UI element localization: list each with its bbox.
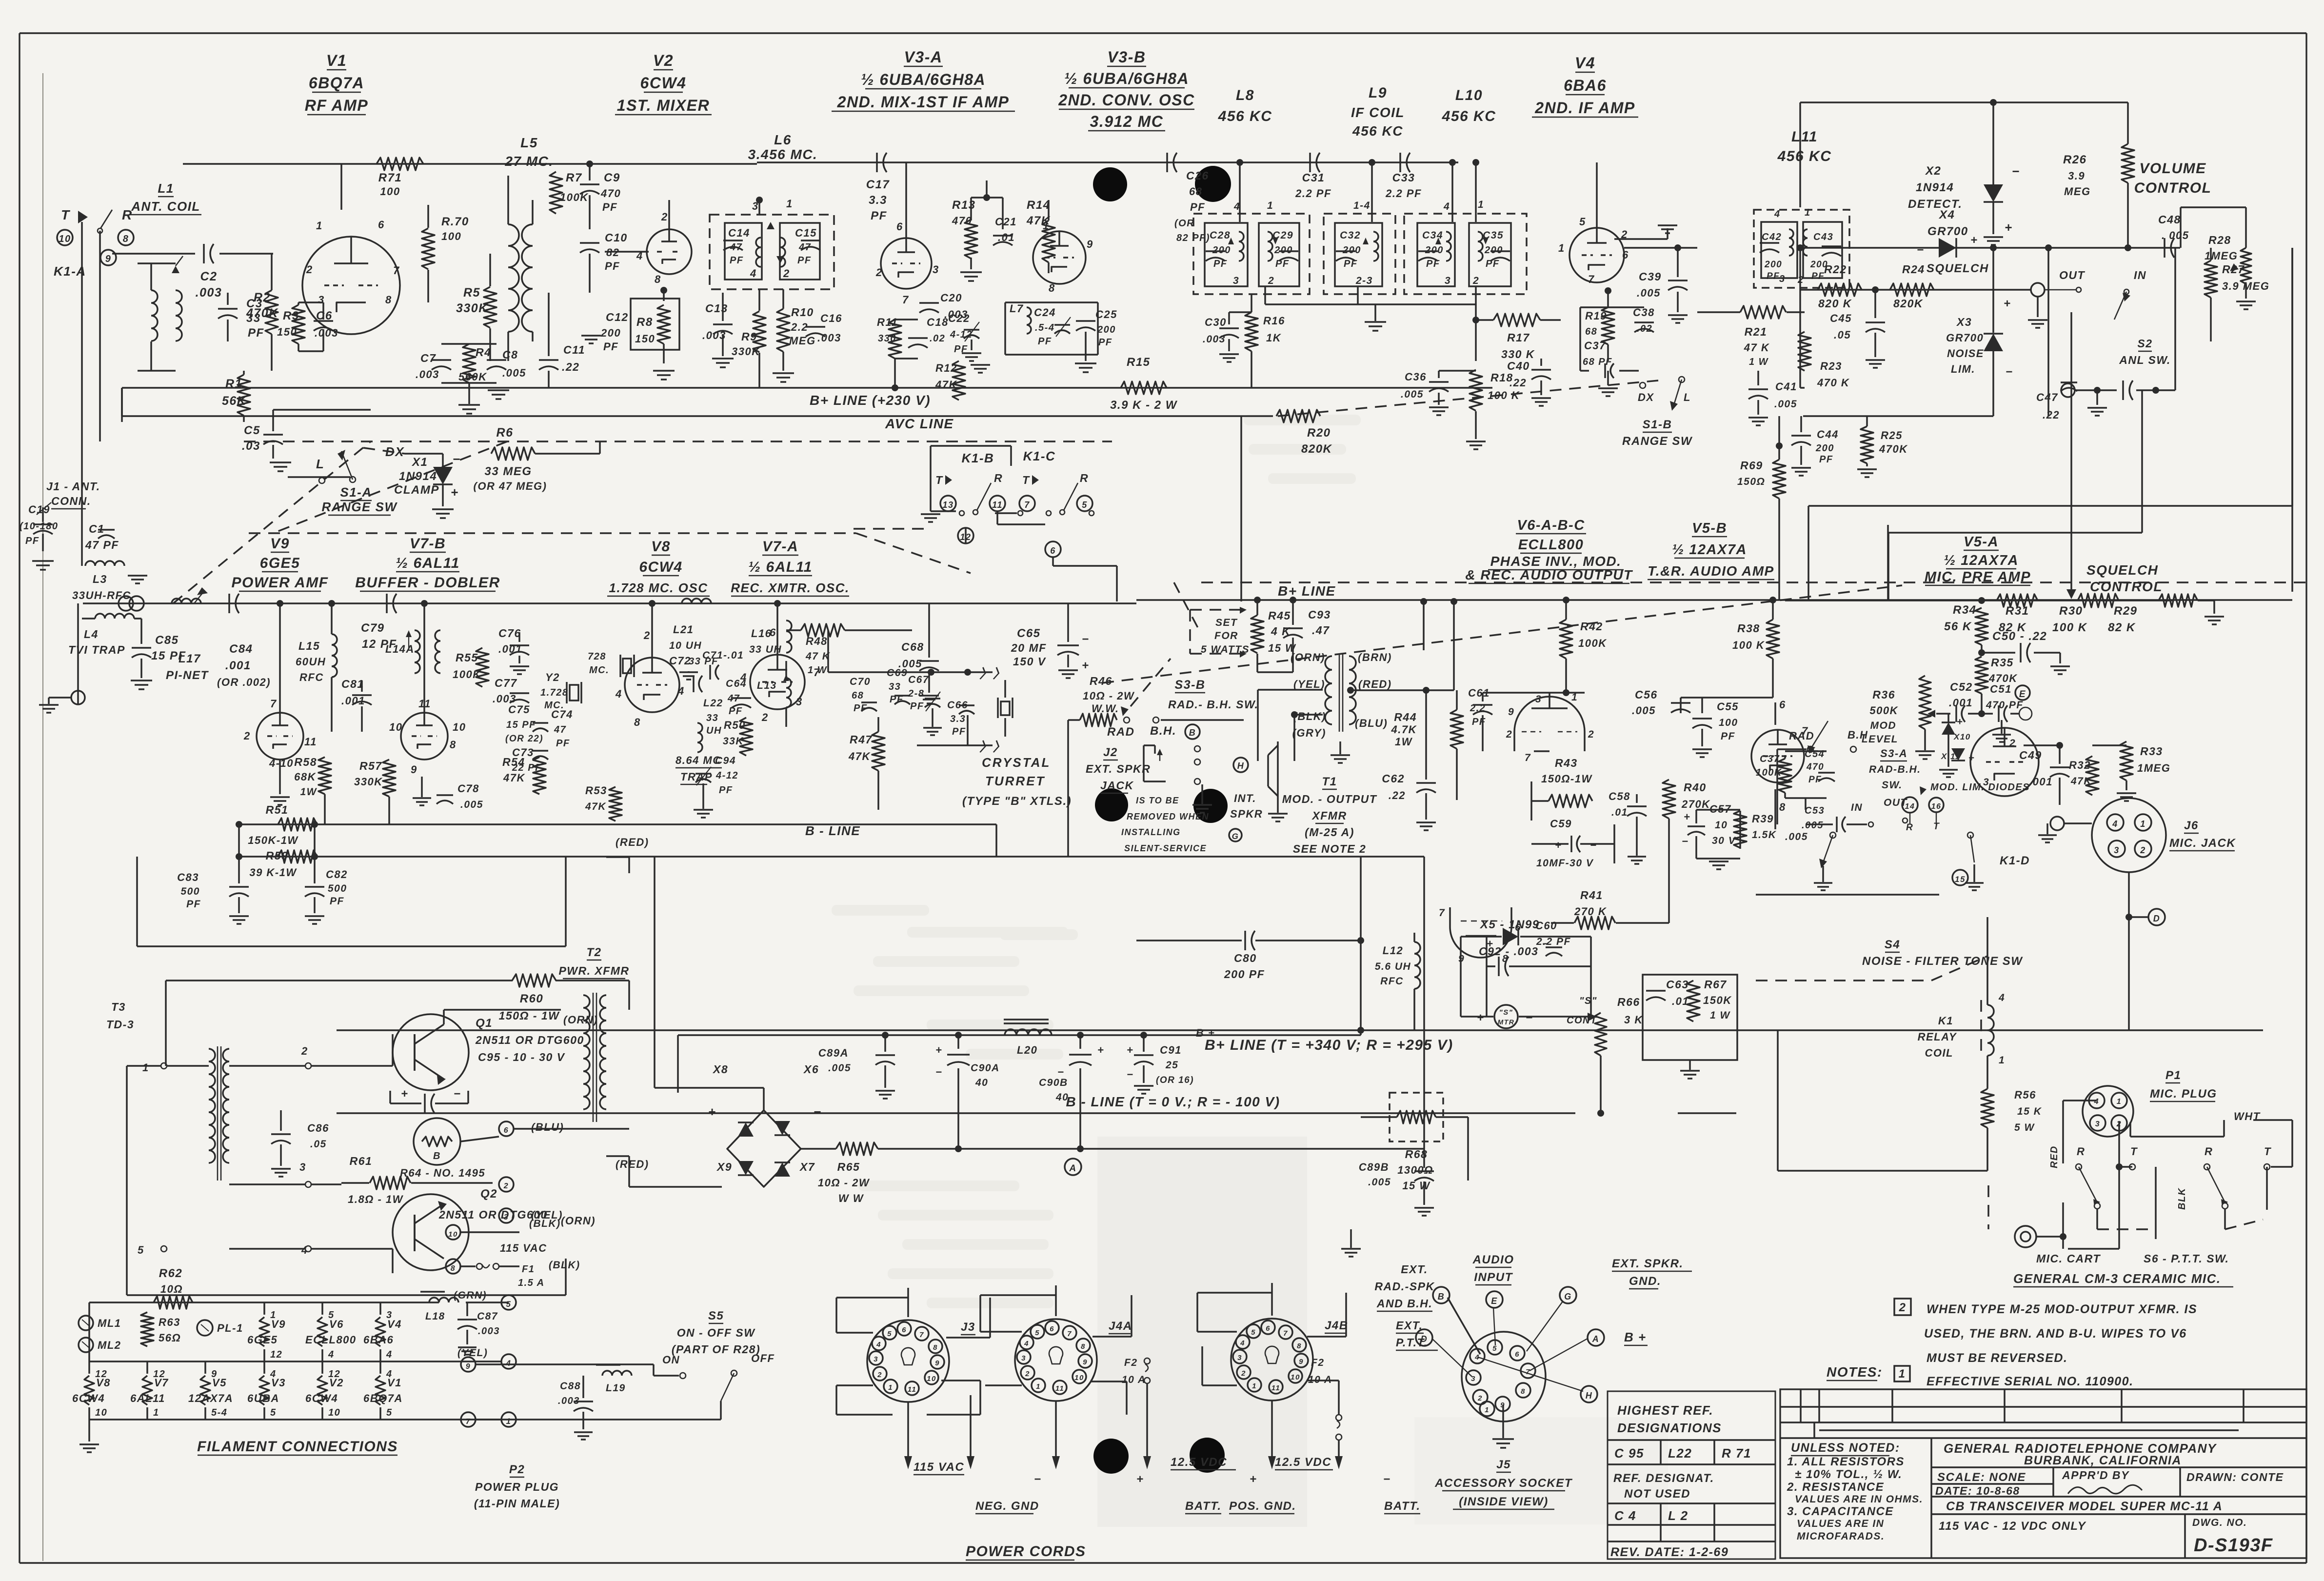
svg-text:4: 4	[750, 267, 757, 280]
svg-text:(M-25 A): (M-25 A)	[1305, 826, 1354, 839]
svg-text:C88: C88	[560, 1381, 581, 1392]
svg-text:R47: R47	[850, 733, 873, 746]
svg-text:150: 150	[635, 333, 655, 345]
svg-text:C70: C70	[850, 676, 871, 687]
svg-text:2: 2	[503, 1182, 509, 1190]
svg-text:C93: C93	[1308, 608, 1331, 621]
svg-text:S5: S5	[708, 1309, 724, 1322]
svg-text:J4A: J4A	[1109, 1320, 1132, 1333]
svg-text:R55: R55	[456, 651, 478, 664]
svg-text:C49: C49	[2019, 749, 2042, 761]
svg-text:7: 7	[1525, 752, 1531, 763]
svg-text:20 MF: 20 MF	[1011, 641, 1047, 654]
svg-text:15 K: 15 K	[2017, 1106, 2042, 1117]
svg-text:10: 10	[1291, 1373, 1300, 1381]
svg-text:+: +	[1082, 659, 1090, 672]
svg-text:R41: R41	[1580, 889, 1603, 901]
svg-text:C86: C86	[307, 1122, 329, 1134]
svg-text:R27: R27	[2222, 263, 2245, 276]
svg-text:−: −	[1057, 1066, 1064, 1078]
svg-text:DESIGNATIONS: DESIGNATIONS	[1617, 1421, 1722, 1435]
svg-text:.003: .003	[1203, 334, 1226, 345]
svg-text:2: 2	[783, 267, 790, 280]
svg-text:W.W.: W.W.	[1092, 702, 1119, 715]
svg-text:R22: R22	[1824, 263, 1847, 276]
svg-text:6: 6	[1622, 249, 1629, 261]
svg-text:L6: L6	[774, 132, 792, 147]
svg-text:A: A	[1592, 1334, 1600, 1344]
svg-text:PF: PF	[1472, 717, 1486, 727]
svg-text:2. RESISTANCE: 2. RESISTANCE	[1787, 1481, 1884, 1494]
svg-text:(BLK): (BLK)	[1293, 710, 1326, 722]
svg-text:5: 5	[1082, 500, 1088, 510]
svg-text:V3: V3	[271, 1377, 286, 1389]
svg-text:C26: C26	[1186, 169, 1209, 182]
svg-text:BATT.: BATT.	[1185, 1500, 1222, 1513]
svg-text:(BLK): (BLK)	[549, 1260, 580, 1271]
svg-text:C7: C7	[420, 352, 436, 364]
svg-text:T: T	[935, 474, 943, 486]
svg-text:+: +	[2005, 220, 2013, 235]
svg-text:2: 2	[301, 1045, 308, 1057]
svg-text:.005: .005	[460, 799, 483, 810]
svg-text:½ 6AL11: ½ 6AL11	[396, 555, 460, 571]
svg-text:C39: C39	[1639, 270, 1662, 283]
svg-text:C1: C1	[89, 522, 104, 535]
svg-text:PF: PF	[248, 326, 264, 340]
svg-text:10: 10	[389, 721, 402, 733]
svg-text:3.3: 3.3	[950, 714, 966, 724]
svg-text:6: 6	[1779, 699, 1786, 711]
svg-text:1: 1	[316, 220, 323, 232]
svg-text:V3-A: V3-A	[904, 48, 943, 66]
svg-text:200 PF: 200 PF	[1224, 968, 1265, 981]
svg-text:33K: 33K	[723, 736, 744, 747]
svg-text:4: 4	[1240, 1339, 1245, 1347]
svg-text:R43: R43	[1555, 757, 1578, 769]
svg-text:1300Ω: 1300Ω	[1397, 1164, 1433, 1176]
svg-text:100K: 100K	[1756, 767, 1782, 778]
svg-text:C15: C15	[795, 227, 817, 239]
svg-text:NEG. GND: NEG. GND	[975, 1500, 1039, 1513]
svg-text:47K: 47K	[585, 801, 606, 812]
svg-text:3: 3	[1237, 1354, 1242, 1362]
svg-text:56 K: 56 K	[1944, 620, 1972, 633]
svg-text:B +: B +	[1196, 1027, 1215, 1039]
svg-text:6: 6	[896, 220, 903, 233]
svg-text:7: 7	[919, 1331, 924, 1339]
svg-text:.05: .05	[310, 1139, 327, 1150]
svg-text:2: 2	[661, 211, 668, 223]
svg-text:+: +	[2004, 297, 2011, 310]
svg-text:R10: R10	[791, 306, 814, 319]
svg-text:4: 4	[2112, 819, 2118, 829]
svg-text:30 V: 30 V	[1712, 835, 1736, 846]
svg-text:+: +	[1127, 1044, 1133, 1056]
svg-text:MOD. LIM. DIODES: MOD. LIM. DIODES	[1930, 782, 2030, 793]
svg-text:C90A: C90A	[971, 1062, 1000, 1074]
svg-text:3.9 K - 2 W: 3.9 K - 2 W	[1110, 399, 1178, 412]
svg-text:PF: PF	[797, 255, 812, 266]
svg-text:SET: SET	[1215, 617, 1238, 628]
svg-text:(YEL): (YEL)	[1293, 678, 1325, 690]
svg-text:AVC LINE: AVC LINE	[885, 416, 954, 431]
svg-text:10: 10	[1715, 820, 1728, 831]
svg-text:R42: R42	[1580, 620, 1603, 633]
svg-text:C58: C58	[1609, 790, 1630, 802]
svg-text:C64: C64	[726, 678, 747, 689]
svg-text:.003: .003	[196, 286, 222, 300]
svg-text:(10-180: (10-180	[20, 521, 58, 532]
svg-text:. 005: . 005	[2162, 229, 2189, 241]
svg-text:RF AMP: RF AMP	[305, 97, 368, 114]
svg-text:B - LINE (T = 0 V.; R = - 100: B - LINE (T = 0 V.; R = - 100 V)	[1066, 1094, 1280, 1109]
svg-text:CONTROL: CONTROL	[2134, 180, 2212, 196]
svg-text:BATT.: BATT.	[1384, 1500, 1421, 1513]
svg-text:V6: V6	[329, 1318, 344, 1330]
svg-text:D: D	[1421, 1334, 1428, 1344]
svg-text:10MF-30 V: 10MF-30 V	[1536, 858, 1594, 869]
svg-text:R69: R69	[1740, 459, 1763, 472]
svg-text:10: 10	[328, 1407, 340, 1418]
svg-text:(11-PIN MALE): (11-PIN MALE)	[474, 1497, 560, 1510]
svg-text:5: 5	[506, 1300, 512, 1309]
svg-text:1: 1	[1485, 1406, 1490, 1414]
svg-text:.003: .003	[478, 1326, 500, 1337]
svg-text:11: 11	[1055, 1384, 1065, 1393]
svg-text:820K: 820K	[1893, 297, 1923, 310]
svg-text:9: 9	[1299, 1358, 1304, 1366]
svg-text:C47: C47	[2036, 391, 2058, 403]
svg-text:1: 1	[1036, 1382, 1041, 1391]
svg-text:GENERAL CM-3 CERAMIC MIC.: GENERAL CM-3 CERAMIC MIC.	[2013, 1271, 2221, 1286]
svg-text:C51: C51	[1990, 683, 2012, 695]
svg-text:330: 330	[878, 333, 896, 344]
svg-text:7: 7	[393, 264, 400, 277]
svg-text:2N511 OR DTG600: 2N511 OR DTG600	[475, 1034, 584, 1046]
svg-text:−: −	[1034, 1473, 1042, 1486]
svg-text:.22: .22	[2043, 409, 2060, 421]
svg-text:.001: .001	[1949, 697, 1973, 709]
svg-text:GR700: GR700	[1946, 332, 1984, 344]
svg-text:.003: .003	[315, 327, 338, 339]
svg-text:.003: .003	[817, 332, 841, 344]
svg-text:47 K: 47 K	[805, 651, 831, 662]
svg-text:"S": "S"	[1499, 1008, 1513, 1017]
svg-text:1: 1	[506, 1417, 512, 1426]
svg-text:RFC: RFC	[1380, 976, 1404, 987]
svg-text:B+ LINE (+230 V): B+ LINE (+230 V)	[810, 393, 931, 408]
svg-text:68: 68	[1585, 326, 1597, 337]
svg-text:150 V: 150 V	[1013, 655, 1046, 668]
svg-text:270K: 270K	[1681, 798, 1710, 810]
svg-text:1MEG: 1MEG	[2205, 250, 2238, 262]
svg-text:CLAMP: CLAMP	[394, 483, 439, 497]
svg-text:1ST. MIXER: 1ST. MIXER	[617, 97, 710, 114]
svg-text:R58: R58	[294, 756, 317, 768]
svg-text:3: 3	[874, 1355, 878, 1363]
svg-text:MTR: MTR	[1498, 1018, 1515, 1026]
svg-text:R9: R9	[741, 330, 757, 343]
svg-text:.01: .01	[1611, 807, 1628, 818]
svg-text:12: 12	[270, 1349, 282, 1360]
svg-text:R32: R32	[2069, 759, 2091, 771]
svg-text:C85: C85	[155, 634, 179, 647]
svg-text:3: 3	[1535, 694, 1542, 705]
svg-text:R63: R63	[159, 1316, 180, 1328]
svg-text:4: 4	[876, 1341, 881, 1349]
svg-text:2: 2	[2140, 845, 2146, 855]
svg-text:C81: C81	[341, 678, 364, 690]
svg-text:PF: PF	[719, 785, 733, 796]
svg-text:J4B: J4B	[1325, 1319, 1349, 1332]
svg-text:C43: C43	[1813, 232, 1833, 242]
svg-text:C66: C66	[947, 700, 968, 711]
svg-text:820K: 820K	[1301, 442, 1332, 456]
svg-text:R62: R62	[159, 1267, 183, 1280]
svg-text:9: 9	[1087, 238, 1093, 250]
svg-text:C31: C31	[1302, 171, 1325, 184]
svg-text:1 W: 1 W	[808, 665, 828, 676]
svg-text:PF: PF	[729, 706, 743, 717]
svg-text:115 VAC - 12 VDC ONLY: 115 VAC - 12 VDC ONLY	[1939, 1520, 2086, 1533]
svg-text:RAD.-SPK: RAD.-SPK	[1374, 1280, 1434, 1293]
svg-text:IN: IN	[1851, 802, 1863, 813]
svg-text:PF: PF	[603, 340, 618, 353]
svg-text:F1: F1	[522, 1264, 535, 1275]
svg-text:X9: X9	[716, 1161, 732, 1173]
svg-text:(ORN): (ORN)	[563, 1014, 598, 1026]
svg-text:.03: .03	[242, 440, 260, 453]
svg-text:½ 6UBA/6GH8A: ½ 6UBA/6GH8A	[861, 71, 986, 88]
svg-text:FILAMENT CONNECTIONS: FILAMENT CONNECTIONS	[197, 1439, 398, 1455]
svg-text:LIM.: LIM.	[1951, 363, 1975, 375]
svg-text:R: R	[2205, 1145, 2213, 1158]
svg-text:(GRY): (GRY)	[1292, 727, 1326, 739]
svg-text:PF: PF	[952, 726, 966, 737]
svg-text:ACCESSORY SOCKET: ACCESSORY SOCKET	[1434, 1477, 1573, 1490]
svg-text:47K: 47K	[935, 379, 957, 391]
svg-text:L12: L12	[1383, 944, 1403, 957]
svg-text:(RED): (RED)	[1358, 678, 1392, 690]
svg-text:R8: R8	[636, 316, 653, 329]
svg-text:560K: 560K	[458, 371, 487, 383]
svg-text:R48: R48	[806, 635, 828, 647]
svg-text:PF: PF	[556, 738, 570, 749]
svg-text:A: A	[1069, 1163, 1076, 1174]
svg-text:POWER CORDS: POWER CORDS	[966, 1543, 1086, 1560]
svg-text:T: T	[2264, 1145, 2271, 1158]
svg-text:.005: .005	[828, 1062, 851, 1074]
svg-text:〉〉: 〉〉	[979, 666, 1006, 681]
svg-text:150Ω-1W: 150Ω-1W	[1541, 773, 1592, 785]
svg-text:6AL11: 6AL11	[130, 1392, 165, 1404]
svg-text:11: 11	[304, 736, 317, 748]
svg-text:C90B: C90B	[1039, 1077, 1068, 1088]
svg-text:10 UH: 10 UH	[669, 640, 702, 651]
svg-text:5 W: 5 W	[2014, 1122, 2035, 1133]
svg-text:MIC. JACK: MIC. JACK	[2169, 837, 2236, 850]
svg-text:6BQ7A: 6BQ7A	[363, 1392, 403, 1404]
svg-text:150K-1W: 150K-1W	[248, 834, 298, 846]
svg-text:MICROFARADS.: MICROFARADS.	[1797, 1531, 1885, 1542]
svg-text:GR700: GR700	[1927, 225, 1968, 238]
svg-text:PF: PF	[890, 694, 904, 705]
svg-text:3: 3	[318, 294, 325, 306]
svg-text:8: 8	[933, 1343, 938, 1352]
svg-text:V5: V5	[212, 1377, 227, 1389]
svg-text:+: +	[401, 1087, 409, 1101]
svg-text:2: 2	[1588, 729, 1594, 740]
svg-text:.22: .22	[1389, 789, 1406, 801]
svg-text:−: −	[814, 1104, 822, 1119]
svg-text:7: 7	[1067, 1330, 1072, 1338]
svg-text:REF. DESIGNAT.: REF. DESIGNAT.	[1613, 1472, 1714, 1485]
svg-text:C63: C63	[1666, 978, 1689, 991]
svg-text:R15: R15	[1127, 356, 1151, 369]
svg-text:.003: .003	[558, 1396, 580, 1406]
svg-text:(OR 22): (OR 22)	[505, 734, 543, 744]
svg-text:E: E	[1491, 1296, 1498, 1306]
svg-text:(GRN): (GRN)	[454, 1290, 487, 1301]
svg-text:MOD. - OUTPUT: MOD. - OUTPUT	[1282, 793, 1377, 805]
svg-text:REMOVED WHEN: REMOVED WHEN	[1127, 812, 1209, 821]
svg-text:33: 33	[706, 713, 718, 723]
svg-text:.01: .01	[998, 231, 1015, 243]
svg-text:9: 9	[105, 254, 112, 264]
svg-text:100: 100	[1719, 717, 1738, 728]
svg-text:100: 100	[441, 230, 461, 242]
svg-text:C2: C2	[200, 270, 218, 283]
svg-text:R56: R56	[2014, 1089, 2036, 1101]
svg-text:K1: K1	[1938, 1015, 1953, 1027]
svg-text:6BQ7A: 6BQ7A	[309, 74, 364, 92]
svg-text:FOR: FOR	[1214, 630, 1238, 641]
svg-text:R57: R57	[359, 760, 382, 772]
svg-text:P1: P1	[2165, 1069, 2181, 1082]
svg-text:+: +	[1250, 1473, 1257, 1486]
svg-text:C13: C13	[705, 302, 728, 315]
svg-text:4: 4	[615, 688, 622, 700]
svg-text:2: 2	[877, 1371, 882, 1379]
svg-text:L3: L3	[93, 573, 107, 585]
svg-text:½ 6UBA/6GH8A: ½ 6UBA/6GH8A	[1064, 70, 1189, 87]
svg-text:PF: PF	[605, 260, 620, 272]
svg-text:RAD.- B.H. SW.: RAD.- B.H. SW.	[1168, 698, 1258, 711]
svg-text:330K: 330K	[732, 345, 760, 358]
svg-text:7: 7	[1526, 1368, 1530, 1376]
svg-text:IF COIL: IF COIL	[1351, 105, 1405, 120]
svg-text:456 KC: 456 KC	[1352, 123, 1403, 139]
svg-text:1.5 A: 1.5 A	[518, 1278, 545, 1288]
svg-text:100K: 100K	[560, 191, 589, 203]
svg-text:L19: L19	[606, 1382, 626, 1394]
svg-text:82 K: 82 K	[2108, 621, 2136, 634]
svg-text:R34: R34	[1953, 603, 1977, 617]
svg-text:6: 6	[1515, 1350, 1520, 1359]
svg-text:3: 3	[2114, 845, 2120, 855]
svg-text:.22: .22	[1510, 377, 1527, 389]
svg-text:HIGHEST REF.: HIGHEST REF.	[1617, 1403, 1713, 1418]
svg-text:C20: C20	[940, 292, 962, 304]
svg-text:−: −	[454, 1087, 461, 1101]
svg-text:L18: L18	[425, 1311, 445, 1322]
svg-text:DATE: 10-8-68: DATE: 10-8-68	[1935, 1484, 2020, 1497]
svg-text:+: +	[1684, 811, 1690, 823]
svg-text:X1: X1	[411, 456, 428, 469]
svg-text:D: D	[2153, 914, 2161, 923]
svg-text:PF: PF	[1767, 271, 1780, 281]
svg-text:R65: R65	[837, 1161, 860, 1173]
svg-text:470: 470	[952, 215, 972, 227]
svg-text:10: 10	[448, 1230, 458, 1239]
svg-text:L10: L10	[1455, 87, 1483, 103]
svg-text:C21: C21	[995, 216, 1017, 228]
svg-text:+: +	[1136, 1473, 1144, 1486]
svg-text:VOLUME: VOLUME	[2139, 160, 2206, 177]
svg-text:3.9: 3.9	[2068, 170, 2085, 182]
svg-text:C 4: C 4	[1614, 1508, 1636, 1523]
svg-text:1: 1	[786, 198, 793, 210]
svg-text:R11: R11	[877, 316, 898, 328]
svg-text:L 2: L 2	[1668, 1508, 1688, 1523]
svg-text:10: 10	[59, 234, 71, 244]
svg-text:1 W: 1 W	[1749, 357, 1769, 367]
svg-text:V1: V1	[387, 1377, 402, 1389]
svg-text:L15: L15	[298, 640, 320, 652]
svg-text:C72: C72	[669, 655, 691, 667]
svg-text:Q2: Q2	[480, 1187, 497, 1201]
svg-text:.05: .05	[1834, 329, 1851, 341]
svg-text:½ 12AX7A: ½ 12AX7A	[1672, 542, 1747, 558]
svg-text:V6-A-B-C: V6-A-B-C	[1517, 518, 1585, 533]
svg-text:7: 7	[270, 698, 277, 710]
svg-text:470: 470	[600, 187, 621, 200]
svg-text:(OR 47 MEG): (OR 47 MEG)	[474, 480, 547, 492]
svg-text:T1: T1	[1322, 775, 1337, 788]
svg-text:16: 16	[1931, 802, 1942, 811]
svg-text:ON - OFF SW: ON - OFF SW	[677, 1326, 756, 1339]
svg-text:+: +	[1970, 234, 1978, 247]
svg-text:100 K: 100 K	[1732, 639, 1765, 651]
svg-text:3.3: 3.3	[869, 194, 887, 207]
svg-text:± 10% TOL., ½ W.: ± 10% TOL., ½ W.	[1795, 1468, 1902, 1481]
svg-text:E: E	[2019, 689, 2026, 700]
svg-text:−: −	[1383, 1473, 1391, 1486]
svg-text:5-4: 5-4	[211, 1407, 227, 1418]
svg-text:6CW4: 6CW4	[72, 1392, 105, 1404]
svg-text:EXT.: EXT.	[1396, 1319, 1423, 1332]
svg-text:39 K-1W: 39 K-1W	[249, 866, 297, 879]
svg-text:8: 8	[451, 1264, 456, 1273]
svg-text:C52: C52	[1950, 680, 1973, 693]
svg-text:2: 2	[306, 263, 313, 276]
svg-text:RAD: RAD	[1107, 725, 1135, 739]
svg-text:5: 5	[1251, 1328, 1256, 1337]
svg-text:1: 1	[2140, 819, 2146, 829]
svg-text:200: 200	[1342, 245, 1361, 256]
svg-text:10: 10	[453, 721, 466, 733]
svg-text:C87: C87	[477, 1311, 498, 1322]
svg-text:SILENT-SERVICE: SILENT-SERVICE	[1124, 843, 1207, 853]
svg-text:S1-B: S1-B	[1643, 418, 1672, 431]
svg-text:POWER AMF: POWER AMF	[231, 575, 328, 591]
svg-text:PF: PF	[1486, 259, 1500, 269]
svg-text:R7: R7	[566, 171, 582, 184]
svg-text:200: 200	[1212, 245, 1231, 256]
svg-text:RANGE SW: RANGE SW	[322, 500, 398, 514]
svg-text:L11: L11	[1791, 129, 1818, 145]
